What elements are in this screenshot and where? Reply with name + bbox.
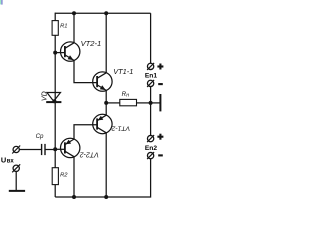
screen artifact top-left xyxy=(0,0,3,5)
svg-text:U: U xyxy=(1,155,6,164)
wire top supply rail xyxy=(55,12,150,14)
node supply midpoint xyxy=(149,101,153,105)
label VT2-2 (rotated) xyxy=(80,150,99,157)
label En1 plus sign xyxy=(157,64,163,70)
wire output node to Rn xyxy=(106,102,120,104)
node bottom rail junction VT2-2 xyxy=(72,195,76,199)
wire emitter VT1-2 to output node xyxy=(105,103,107,115)
label En2 xyxy=(145,145,157,152)
wire base VT2-2 xyxy=(55,148,65,150)
transistor VT2-1 xyxy=(60,42,79,61)
wire collector VT1-1 to rail xyxy=(105,13,107,73)
wire left vertical (R1 bottom through diode to cap junction and R2) xyxy=(54,35,56,167)
terminal input top xyxy=(12,146,20,154)
resistor R2 xyxy=(52,168,68,185)
wire input to cap xyxy=(20,149,42,151)
label Cp xyxy=(36,133,44,140)
wire emitter VT1-1 to output node xyxy=(105,90,107,103)
svg-text:En1: En1 xyxy=(145,73,157,80)
label Uvx xyxy=(1,155,14,164)
wire rail corner down to En1 xyxy=(150,13,152,63)
transistor VT2-2 xyxy=(60,138,79,157)
wire En2 minus down to bottom rail xyxy=(55,159,150,197)
terminal En2 minus xyxy=(147,152,154,159)
label En2 minus sign xyxy=(158,154,163,156)
label VT1-1 xyxy=(113,67,133,76)
wire midpoint to En2 plus xyxy=(150,103,152,136)
node cap junction xyxy=(53,147,57,151)
svg-text:VT2-1: VT2-1 xyxy=(81,39,102,48)
terminal input bottom xyxy=(12,164,20,172)
svg-text:R2: R2 xyxy=(60,173,68,179)
svg-text:VT1-2: VT1-2 xyxy=(111,124,130,131)
wire left drop to R1 xyxy=(54,13,56,21)
svg-text:VT1-1: VT1-1 xyxy=(113,67,133,76)
wire base VT2-1 xyxy=(55,52,65,54)
label VT1-2 (rotated) xyxy=(111,124,130,131)
svg-text:н: н xyxy=(126,92,129,98)
terminal bar common xyxy=(159,94,161,111)
svg-text:Cp: Cp xyxy=(36,133,44,140)
svg-text:En2: En2 xyxy=(145,145,157,152)
node rail junction VT2-1 xyxy=(72,11,76,15)
wire Rn to supply midpoint xyxy=(137,102,151,104)
capacitor Cp xyxy=(42,144,45,155)
wire cap to junction xyxy=(45,149,55,151)
label En2 plus sign xyxy=(157,134,163,140)
wire R2 to bottom rail xyxy=(54,185,56,197)
label En1 minus sign xyxy=(158,83,163,85)
resistor Rn xyxy=(120,91,137,106)
label VT2-1 xyxy=(81,39,102,48)
svg-text:вх: вх xyxy=(7,159,15,165)
label VD (rotated) xyxy=(41,91,48,101)
resistor R1 xyxy=(52,21,67,36)
transistor VT1-1 xyxy=(93,72,112,91)
wire collector VT2-2 to bottom rail xyxy=(73,157,75,197)
terminal En2 plus xyxy=(147,135,154,142)
terminal En1 minus xyxy=(147,80,154,87)
wire midpoint stub right xyxy=(151,102,160,104)
diode VD xyxy=(46,93,61,104)
node rail junction VT1-1 xyxy=(104,11,108,15)
svg-text:VT2-2: VT2-2 xyxy=(80,150,99,157)
wire En1 minus to midpoint xyxy=(150,87,152,103)
ground xyxy=(9,172,25,191)
svg-text:VD: VD xyxy=(41,91,48,101)
node base tap VT2-1 xyxy=(53,51,57,55)
terminal En1 plus xyxy=(147,63,154,70)
wire collector VT2-1 to rail xyxy=(73,13,75,43)
wire emitter VT2-1 to base VT1-1 xyxy=(74,60,97,82)
label En1 xyxy=(145,73,157,80)
wire collector VT1-2 to bottom rail xyxy=(105,133,107,197)
svg-text:R1: R1 xyxy=(60,24,67,30)
transistor VT1-2 xyxy=(93,114,112,133)
wire emitter VT2-2 to base VT1-2 xyxy=(74,125,97,139)
node output junction xyxy=(104,101,108,105)
node bottom rail junction VT1-2 xyxy=(104,195,108,199)
